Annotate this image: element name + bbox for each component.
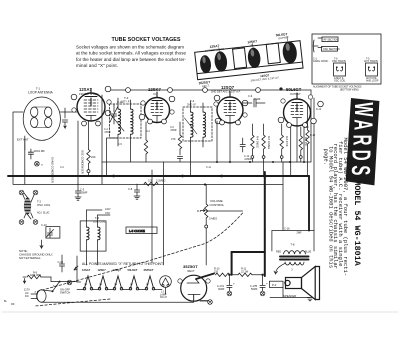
chassis top view drawing [194,31,304,89]
svg-text:12SK7: 12SK7 [148,87,161,92]
svg-text:(BOTTOM VIEW): (BOTTOM VIEW) [340,88,359,91]
tube 35Z5GT on chassis [199,55,212,74]
wire switch feed up [77,256,81,282]
wire 50L6 plate down [296,126,298,162]
svg-text:.05MF: .05MF [80,191,88,195]
svg-text:1ST I.F.: 1ST I.F. [121,100,130,104]
wire 12SA7 cathode down [77,121,79,185]
svg-text:12SQ7: 12SQ7 [113,268,122,272]
tube 12SA7 on chassis [214,51,229,73]
heater string wire [77,289,160,291]
svg-text:R: R [347,135,376,146]
cap C-3 to gnd [75,191,80,193]
svg-text:C-16: C-16 [284,227,290,231]
svg-text:12SK7: 12SK7 [98,268,107,272]
padder C-13 [46,227,60,239]
wire 50L6 plate to transformer [282,162,284,231]
choke L-5 boxed label [126,227,157,234]
svg-text:2MF: 2MF [297,231,303,235]
svg-text:2ND DET AVC & 1ST A.F.: 2ND DET AVC & 1ST A.F. [211,89,241,93]
voltage bubbles at tube pins [72,95,313,283]
svg-text:R-8 150: R-8 150 [304,137,307,147]
IF transformer T-4 [183,107,212,141]
svg-text:C-5: C-5 [118,143,123,146]
tube 35Z5GT V5 rectifier [181,275,207,301]
svg-text:T-8: T-8 [290,242,294,246]
svg-text:RED: RED [276,251,281,254]
trimmer C-1A [110,104,118,124]
resistor R-11 [238,273,252,276]
svg-text:OSC COIL: OSC COIL [334,80,346,83]
svg-text:RF SECTION: RF SECTION [324,38,339,41]
resistor R-4 [251,135,254,149]
svg-text:LOOP ANTENNA: LOOP ANTENNA [28,91,54,95]
capacitor C-12 [242,138,244,144]
svg-text:+: + [266,282,268,286]
bottom bus [42,295,194,303]
svg-text:L-5 CHOKE: L-5 CHOKE [129,229,145,233]
wires left mid [87,210,111,215]
wires 12SQ7 to volume [216,121,218,162]
svg-text:R-4 1MEG: R-4 1MEG [256,136,259,148]
wire loop bottom down [24,140,26,184]
X node near C-15 [67,280,72,285]
wire 50L6 grid down [290,126,292,176]
switch S-1 [42,290,53,291]
gnd bottom right [270,287,310,297]
svg-text:minal and "X" point.: minal and "X" point. [76,63,118,68]
svg-text:.005MF: .005MF [244,158,253,161]
svg-text:220: 220 [214,270,219,273]
svg-text:I.F.: I.F. [153,92,157,96]
svg-text:R-6 470K: R-6 470K [285,136,288,147]
IF transformer T-3 [110,104,142,138]
resistor R-12 50L6 screen [306,130,309,144]
svg-text:R-2: R-2 [146,130,151,133]
svg-text:P-2: P-2 [272,283,277,287]
svg-text:C-10: C-10 [304,126,310,129]
model paragraph rotated [323,138,349,277]
resistor under 12SA7 [87,150,90,164]
svg-text:ALL POINTS MARKED "X" RETURN T: ALL POINTS MARKED "X" RETURN TO THIS POI… [82,262,163,266]
svg-text:NOT EXTERNAL.: NOT EXTERNAL. [19,256,41,260]
svg-text:50MF: 50MF [251,288,258,291]
pin bubbles along wires [82,88,308,128]
svg-text:C-2: C-2 [60,166,65,169]
bus y162 [102,161,311,163]
svg-text:D: D [347,150,376,161]
svg-text:RECT: RECT [188,269,195,273]
alignment info box top right [312,34,381,91]
resistor R-9 line [23,276,26,278]
speaker [285,267,320,300]
svg-text:.5 MEG: .5 MEG [209,217,218,221]
svg-text:GANG COND.: GANG COND. [313,60,329,63]
junction [228,274,230,276]
plate lead thick [196,274,214,280]
svg-text:50L6GT: 50L6GT [128,268,138,272]
cap + resistor cluster right of 12SK7 [144,140,147,154]
svg-text:Socket voltages are shown on t: Socket voltages are shown on the schemat… [76,45,184,50]
svg-text:TUBE SOCKET VOLTAGES: TUBE SOCKET VOLTAGES [112,37,181,43]
verticals from T-4 region down [152,162,164,265]
svg-text:12SA7: 12SA7 [79,87,92,92]
svg-text:1ST DET & OSC: 1ST DET & OSC [79,92,98,96]
wire x304 [303,126,305,162]
svg-text:S-1: S-1 [53,285,57,288]
svg-text:C-13: C-13 [41,223,47,227]
bus y184 [13,184,283,186]
svg-text:+: + [233,282,235,286]
svg-text:OSC.COIL: OSC.COIL [37,203,51,207]
IF can T-4 on chassis [266,43,280,64]
junction dots [112,175,115,178]
svg-text:RD: RD [11,303,15,306]
T-1 loop antenna [23,97,60,140]
svg-text:12SQ7: 12SQ7 [221,85,235,90]
svg-text:35Z5GT: 35Z5GT [183,264,198,269]
svg-text:.05MF: .05MF [104,131,111,134]
cap to gnd on bus [134,190,139,192]
plug P-2 [269,281,283,287]
resistor R-5 [262,135,265,149]
heater 50L6GT [131,276,138,288]
svg-text:OSC.COIL: OSC.COIL [93,220,106,224]
node X below [208,300,213,305]
svg-text:.0001 MF: .0001 MF [33,149,45,153]
svg-text:47K: 47K [171,137,176,141]
svg-text:Y: Y [41,163,43,167]
faint page bottom edge [2,311,398,313]
IF can T-3 on chassis [233,48,247,69]
top bus wire [108,89,311,91]
arrow down note [40,240,43,248]
tube 50L6GT on chassis [282,41,298,64]
svg-text:R-9: R-9 [33,272,38,275]
node Y [35,161,40,166]
WARDS banner [346,98,380,185]
output transformer box [272,231,314,252]
wire left gang vertical [101,95,103,184]
svg-text:R-3: R-3 [197,209,202,213]
svg-text:C-8: C-8 [128,187,133,191]
resistor on bus 2.2MEG [144,182,158,185]
svg-text:OSC SECTION: OSC SECTION [323,48,340,51]
svg-text:SWITCH: SWITCH [60,291,70,295]
tube 12SK7 on chassis [247,47,262,69]
svg-text:EXT ANT: EXT ANT [17,138,29,142]
svg-text:R-12: R-12 [316,108,322,111]
svg-text:GANG CONDENSER: GANG CONDENSER [51,157,55,183]
svg-text:NO.47: NO.47 [160,296,168,299]
heavy B+ bus [8,175,309,177]
wire 50L6 screen [310,90,312,162]
svg-text:AND LOOP: AND LOOP [366,80,379,83]
svg-text:2ND I.F.: 2ND I.F. [187,103,197,107]
thick B+ wiring [232,172,265,276]
pin bubble [105,86,111,92]
svg-text:DC: DC [25,294,29,298]
AC plug [37,290,46,302]
svg-text:BLUE: BLUE [305,251,312,254]
tube 12SQ7 V3 [217,97,243,123]
svg-text:OSC CONDENSER: OSC CONDENSER [81,150,85,174]
chassis top face [195,41,303,74]
tube 50L6GT V4 [284,99,311,126]
wire R-9 to switch [50,277,52,282]
resistor R-6 [280,135,283,149]
hook wire to P-2 [274,263,286,274]
svg-text:page.: page. [323,149,330,166]
svg-text:OSC: OSC [105,212,110,215]
heater 35Z5GT [147,276,154,288]
svg-text:ADJ. SLUG: ADJ. SLUG [37,212,49,215]
tube 12SK7 V2 [145,98,170,123]
svg-text:T-3: T-3 [124,96,129,100]
resistor R-10 [216,273,230,276]
svg-text:35Z5GT: 35Z5GT [144,268,154,272]
svg-text:3.3: 3.3 [148,179,152,183]
svg-text:OUTPUT: OUTPUT [290,92,301,96]
svg-text:for the heater and dial lamp a: for the heater and dial lamp are between… [76,57,187,62]
heater 12SQ7 [115,276,122,288]
capacitor C-2 [62,108,67,128]
wire loop to grid [60,111,77,113]
svg-text:22K: 22K [91,155,96,159]
gang condenser bracket [313,40,318,52]
T-2 osc coil slug [19,190,24,195]
heater 12SA7 [83,276,154,290]
electrolytic C-17A [228,276,230,285]
chassis front face [197,62,303,80]
svg-text:R-12: R-12 [310,134,316,137]
dial lamp L-1 [160,276,172,288]
svg-text:30MF: 30MF [218,288,225,291]
svg-text:MODEL 54 WG-1801A: MODEL 54 WG-1801A [352,180,362,266]
wire left edge [13,112,23,184]
svg-text:120V: 120V [105,208,111,211]
heater 12SK7 [100,276,107,288]
svg-text:C-15: C-15 [58,260,64,264]
tiny value labels [4,108,322,306]
svg-text:12SA7: 12SA7 [82,268,91,272]
svg-text:A: A [348,119,377,130]
svg-text:T-2: T-2 [95,216,99,220]
osc coil windings box T-2 [80,221,106,251]
tube 12SA7 V1 [77,93,105,121]
svg-text:22 1W: 22 1W [241,270,249,273]
svg-text:50L6GT: 50L6GT [286,87,302,92]
svg-text:2.2MEG: 2.2MEG [156,179,166,183]
resistor R-7 [299,136,302,150]
dashed mechanical links [35,213,243,306]
svg-text:S: S [346,165,375,175]
svg-text:C-11: C-11 [206,166,212,169]
svg-text:CONTROL: CONTROL [210,203,225,207]
svg-text:2200 OHM: 2200 OHM [30,275,41,277]
svg-text:.05MF: .05MF [170,129,177,132]
electrolytic C-17B [262,276,264,285]
svg-text:W: W [349,102,378,117]
svg-text:R-5 10MEG: R-5 10MEG [267,136,270,149]
svg-text:at the tube socket terminals.: at the tube socket terminals. All voltag… [76,51,186,56]
